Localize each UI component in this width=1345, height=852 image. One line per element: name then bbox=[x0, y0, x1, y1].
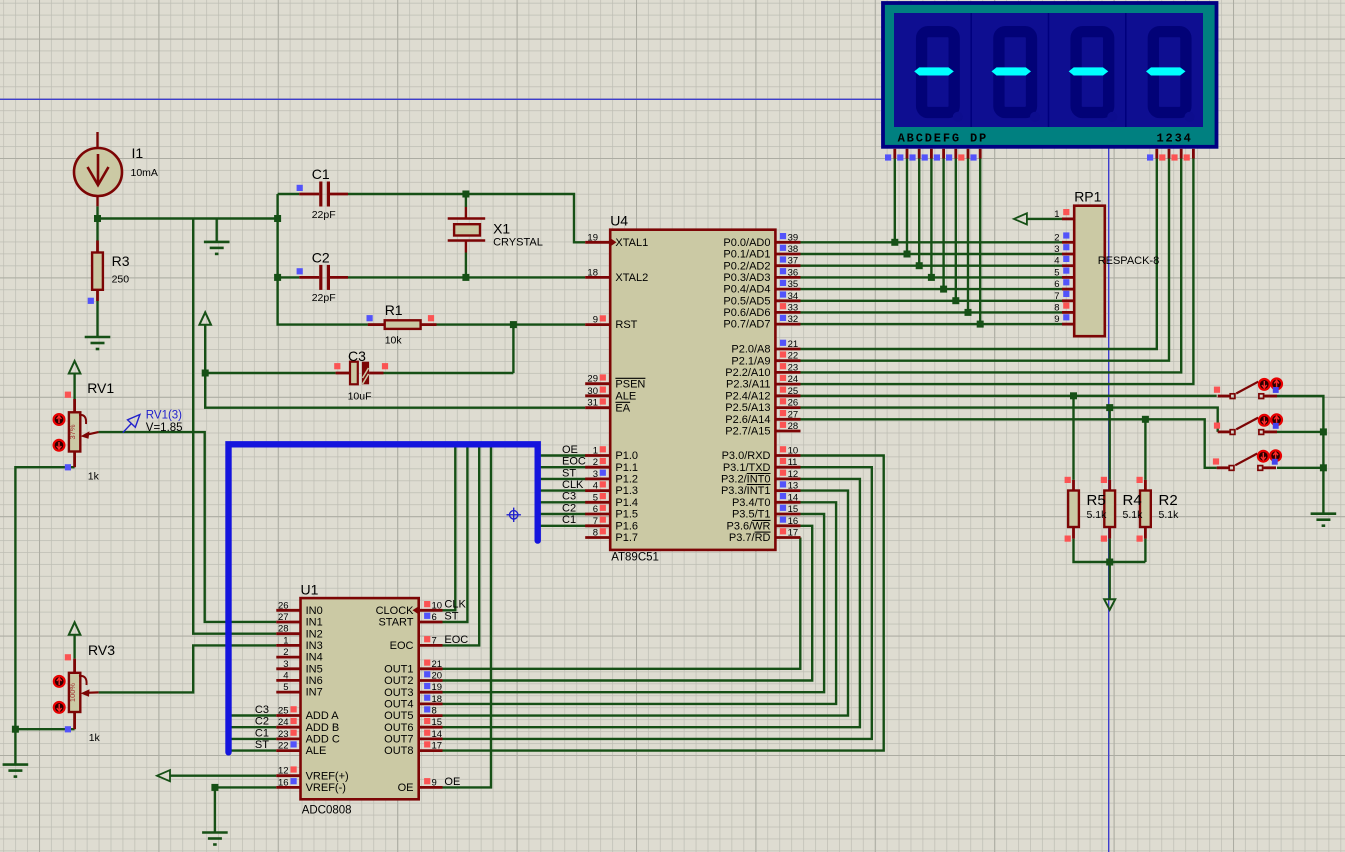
potentiometer RV1 down actuator bbox=[54, 440, 65, 451]
pin 28 stub U1 IN2 bbox=[276, 632, 300, 635]
pin 22 stub U4 P2.1/A9 bbox=[775, 359, 800, 362]
svg-text:31: 31 bbox=[587, 398, 598, 409]
svg-text:5.1k: 5.1k bbox=[1159, 509, 1180, 521]
pin 8 stub U1 OUT5 bbox=[419, 714, 443, 717]
origin marker crosshair bbox=[507, 508, 521, 522]
potentiometer RV3 top stub bbox=[73, 659, 76, 673]
node R2 tap junction bbox=[1142, 416, 1149, 423]
svg-text:26: 26 bbox=[278, 600, 289, 611]
pin 12 stub U4 P3.2/INT0 bbox=[775, 477, 800, 480]
svg-text:ALE: ALE bbox=[306, 745, 327, 757]
pin 1 marker U4 bbox=[600, 446, 606, 452]
wire X1 bottom to C2 net bbox=[465, 253, 467, 278]
svg-text:17: 17 bbox=[788, 528, 799, 539]
resistor R1 left stub bbox=[368, 323, 385, 326]
svg-text:IN0: IN0 bbox=[306, 605, 323, 617]
pin 5 stub U4 P1.4 bbox=[585, 501, 610, 504]
wire RV1 top to VCC terminal bbox=[73, 373, 75, 399]
pin 39 stub U4 P0.0/AD0 bbox=[775, 241, 800, 244]
svg-text:ALE: ALE bbox=[615, 390, 636, 402]
switch SW3 up actuator bbox=[1270, 450, 1281, 461]
pin 1 stub RP1 bbox=[1062, 217, 1074, 220]
node RV3/ground rail junction bbox=[12, 726, 19, 733]
capacitor C2 left stub bbox=[299, 276, 319, 279]
svg-text:V=1.85: V=1.85 bbox=[146, 422, 183, 434]
current source I1 bbox=[74, 132, 122, 206]
pin 22 marker U4 bbox=[780, 351, 786, 357]
wire RV1 bottom to ground rail bbox=[15, 467, 74, 764]
marker R4 top pin bbox=[1101, 477, 1107, 483]
wire VCC terminal to EA pin31 bbox=[205, 325, 585, 408]
svg-text:P3.5/T1: P3.5/T1 bbox=[732, 509, 771, 521]
pin 17 marker U4 bbox=[780, 528, 786, 534]
svg-text:VREF(-): VREF(-) bbox=[306, 782, 346, 794]
pin 19 stub U1 OUT3 bbox=[419, 691, 443, 694]
capacitor C1 plates bbox=[321, 182, 329, 207]
wire display digit 2 to 8051 P2.1 pin22 bbox=[801, 158, 1170, 361]
node display segment G junction bbox=[965, 309, 972, 316]
wire R4 bottom to output terminal bbox=[1108, 539, 1110, 600]
resistor R5 top stub bbox=[1072, 480, 1075, 491]
svg-text:7: 7 bbox=[432, 635, 437, 646]
node collector R4 junction bbox=[1106, 559, 1113, 566]
node display segment C junction bbox=[916, 262, 923, 269]
wire bus tap to ADC CLK pin bbox=[443, 447, 456, 611]
pin 36 stub U4 P0.3/AD3 bbox=[775, 276, 800, 279]
svg-text:6: 6 bbox=[432, 612, 437, 623]
resistor R5 body bbox=[1068, 491, 1079, 528]
wire VREF- to ground bbox=[215, 786, 276, 788]
marker display digit 1 bbox=[1147, 154, 1153, 160]
marker display digit 4 bbox=[1184, 154, 1190, 160]
pin 9 marker RP1 bbox=[1063, 314, 1069, 320]
svg-text:C3: C3 bbox=[348, 348, 366, 364]
pin 7 marker RP1 bbox=[1063, 291, 1069, 297]
pin 6 marker U4 bbox=[600, 505, 606, 511]
svg-text:OE: OE bbox=[398, 782, 414, 794]
pin 34 marker U4 bbox=[780, 291, 786, 297]
node C2/X1 bottom bbox=[462, 274, 469, 281]
ground bottom left rail bbox=[3, 765, 29, 777]
marker C2 left pin bbox=[297, 268, 303, 274]
potentiometer RV1 body bbox=[69, 412, 80, 451]
potentiometer RV1 up actuator bbox=[54, 414, 65, 425]
pin 28 stub U4 P2.7/A15 bbox=[775, 430, 800, 433]
sheet border top edge bbox=[0, 98, 1109, 100]
pin 20 marker U1 bbox=[424, 671, 430, 677]
wire 8051 P0.2 pin37 to RP1 pin4 bbox=[801, 265, 1063, 267]
wire bus to 8051 P1.1 pin2 bbox=[541, 466, 586, 468]
wire C3 left to VCC rail bbox=[205, 372, 335, 374]
pin 35 marker U4 bbox=[780, 280, 786, 286]
svg-text:OUT4: OUT4 bbox=[384, 699, 413, 711]
wire switch 1 to ground rail bbox=[1277, 396, 1323, 514]
wire bus to ADC ALE bbox=[231, 749, 276, 751]
svg-text:8: 8 bbox=[593, 528, 598, 539]
switch SW2 right contact bbox=[1259, 430, 1264, 435]
svg-text:18: 18 bbox=[587, 267, 598, 278]
svg-text:RV1: RV1 bbox=[87, 380, 114, 396]
pin 38 marker U4 bbox=[780, 245, 786, 251]
marker RV1 bottom pin bbox=[65, 464, 71, 470]
resistor R5 bottom stub bbox=[1072, 527, 1075, 539]
ground under ADC VREF- bbox=[202, 833, 228, 845]
pin 27 marker U4 bbox=[780, 410, 786, 416]
svg-text:18: 18 bbox=[432, 694, 443, 705]
wire ADC OUT7 to 8051 P3.1 pin11 bbox=[443, 467, 872, 739]
pin 31 marker U4 bbox=[600, 398, 606, 404]
svg-text:19: 19 bbox=[587, 232, 598, 243]
wire 8051 P0.6 pin33 to RP1 pin8 bbox=[801, 311, 1063, 313]
pin 14 marker U1 bbox=[424, 730, 430, 736]
pin 22 stub U1 ALE bbox=[276, 749, 300, 752]
node VREF- ground junction bbox=[211, 784, 218, 791]
potentiometer RV1 wiper arrow bbox=[79, 415, 99, 439]
svg-text:EOC: EOC bbox=[562, 456, 586, 468]
capacitor C2 right stub bbox=[330, 276, 348, 279]
svg-text:P3.4/T0: P3.4/T0 bbox=[732, 497, 771, 509]
svg-text:IN4: IN4 bbox=[306, 652, 323, 664]
svg-text:X1: X1 bbox=[493, 221, 510, 237]
pin display segment E bbox=[942, 149, 945, 159]
wire bus to 8051 P1.5 pin6 bbox=[541, 513, 586, 515]
svg-text:CLOCK: CLOCK bbox=[376, 605, 415, 617]
wire R5 bottom to collector bbox=[1074, 539, 1146, 562]
pin 2 stub RP1 bbox=[1062, 241, 1074, 244]
svg-text:34: 34 bbox=[788, 291, 799, 302]
svg-text:100%: 100% bbox=[68, 683, 77, 703]
svg-text:9: 9 bbox=[1054, 314, 1059, 325]
svg-text:5: 5 bbox=[1054, 267, 1059, 278]
wire display digit 4 to 8051 P2.3 pin24 bbox=[801, 158, 1194, 385]
switch SW3 right stub bbox=[1263, 466, 1276, 469]
pin 2 marker RP1 bbox=[1063, 232, 1069, 238]
switch SW1 right stub bbox=[1264, 395, 1277, 398]
pin 11 marker U4 bbox=[780, 458, 786, 464]
svg-text:25: 25 bbox=[788, 386, 799, 397]
svg-text:CLK: CLK bbox=[444, 599, 466, 611]
svg-text:21: 21 bbox=[788, 339, 799, 350]
wire bus tap to ADC ST pin bbox=[443, 447, 468, 622]
svg-text:27: 27 bbox=[788, 409, 799, 420]
ground switch rail bbox=[1311, 514, 1337, 526]
svg-text:XTAL1: XTAL1 bbox=[615, 237, 648, 249]
wire ground stem near C1 bbox=[215, 219, 217, 242]
display digit divider 1 bbox=[970, 13, 972, 127]
capacitor C2 plates bbox=[321, 265, 329, 290]
marker RV1 top pin bbox=[65, 392, 71, 398]
wire C2 right to XTAL2 pin18 bbox=[348, 276, 585, 278]
switch SW3 right contact bbox=[1258, 466, 1263, 471]
pin 20 stub U1 OUT2 bbox=[419, 679, 443, 682]
svg-text:PSEN: PSEN bbox=[615, 378, 645, 390]
svg-text:C1: C1 bbox=[255, 727, 269, 739]
pin 18 stub U1 OUT4 bbox=[419, 703, 443, 706]
pin 27 stub U1 IN1 bbox=[276, 621, 300, 624]
pin display digit 4 bbox=[1192, 149, 1195, 159]
wire display segment DP to P0.7 net bbox=[979, 158, 981, 325]
svg-text:9: 9 bbox=[593, 315, 598, 326]
pin 7 stub U1 EOC bbox=[419, 644, 443, 647]
display digit 1 segments bbox=[922, 32, 963, 122]
pin 9 stub U1 OE bbox=[419, 786, 443, 789]
svg-text:IN1: IN1 bbox=[306, 617, 323, 629]
node display segment E junction bbox=[940, 286, 947, 293]
pin 23 marker U1 bbox=[291, 730, 297, 736]
pin 24 stub U4 P2.3/A11 bbox=[775, 383, 800, 386]
svg-text:RESPACK-8: RESPACK-8 bbox=[1098, 255, 1160, 267]
marker switch SW2 left pin bbox=[1214, 423, 1220, 429]
svg-text:EOC: EOC bbox=[390, 640, 414, 652]
pin 10 marker U1 bbox=[424, 601, 430, 607]
potentiometer RV1 bottom stub bbox=[73, 452, 76, 468]
svg-text:RV1(3): RV1(3) bbox=[146, 410, 182, 422]
svg-text:17: 17 bbox=[432, 741, 443, 752]
svg-text:2: 2 bbox=[593, 457, 598, 468]
pin 15 marker U1 bbox=[424, 718, 430, 724]
wire C3 vertical to RST net bbox=[512, 325, 514, 373]
pin 29 marker U4 bbox=[600, 374, 606, 380]
wire bus to 8051 P1.3 pin4 bbox=[541, 489, 586, 491]
svg-text:IN3: IN3 bbox=[306, 640, 323, 652]
wire switch 2 to ground rail bbox=[1277, 431, 1323, 433]
node ground rail sw3 bbox=[1320, 464, 1327, 471]
svg-text:39: 39 bbox=[788, 232, 799, 243]
pin 9 stub U4 RST bbox=[585, 323, 610, 326]
wire RV3 bottom to ground rail bbox=[15, 728, 74, 730]
node VCC/C3 bbox=[202, 370, 209, 377]
marker display segment A bbox=[885, 154, 891, 160]
svg-text:10uF: 10uF bbox=[348, 391, 372, 403]
pin 17 stub U4 P3.7/RD bbox=[775, 536, 800, 539]
marker R5 bottom pin bbox=[1065, 536, 1071, 542]
svg-text:6: 6 bbox=[593, 504, 598, 515]
pin 19 stub U4 XTAL1 bbox=[585, 241, 610, 244]
pin 7 stub U4 P1.6 bbox=[585, 524, 610, 527]
pin 3 stub U1 IN5 bbox=[276, 667, 300, 670]
display digit 4 segments bbox=[1153, 32, 1194, 122]
svg-text:C2: C2 bbox=[255, 716, 269, 728]
marker R2 bottom pin bbox=[1137, 536, 1143, 542]
capacitor C3 left stub bbox=[336, 372, 350, 375]
wire 8051 P2.5 pin26 to switch 2 bbox=[801, 408, 1218, 432]
pin 24 marker U4 bbox=[780, 375, 786, 381]
svg-text:16: 16 bbox=[788, 516, 799, 527]
node R5 tap junction bbox=[1070, 392, 1077, 399]
svg-text:R1: R1 bbox=[385, 302, 403, 318]
marker display digit 2 bbox=[1159, 154, 1165, 160]
pin 24 marker U1 bbox=[291, 718, 297, 724]
pin 21 marker U4 bbox=[780, 340, 786, 346]
pin 35 stub U4 P0.4/AD4 bbox=[775, 288, 800, 291]
wire display segment E to P0.4 net bbox=[942, 158, 944, 290]
svg-text:7: 7 bbox=[593, 516, 598, 527]
pin 29 stub U4 PSEN bbox=[585, 382, 610, 385]
pin 4 stub RP1 bbox=[1062, 264, 1074, 267]
svg-text:P0.4/AD4: P0.4/AD4 bbox=[723, 284, 770, 296]
svg-text:P0.0/AD0: P0.0/AD0 bbox=[723, 237, 770, 249]
potentiometer RV3 body bbox=[69, 673, 80, 712]
svg-text:OE: OE bbox=[562, 444, 578, 456]
svg-text:ADC0808: ADC0808 bbox=[302, 805, 352, 817]
wire C3 right bbox=[384, 372, 514, 374]
svg-text:IN5: IN5 bbox=[306, 663, 323, 675]
bus ADC control/address bbox=[229, 444, 538, 752]
display digit 3 lit G segment bbox=[1069, 67, 1109, 75]
wire ADC OUT1 to 8051 P3.7 pin17 bbox=[443, 538, 801, 669]
pin 2 marker U4 bbox=[600, 458, 606, 464]
switch SW2 left stub bbox=[1218, 430, 1231, 433]
pin 15 marker U4 bbox=[780, 505, 786, 511]
svg-text:37%: 37% bbox=[68, 424, 77, 439]
pin 10 stub U1 CLOCK bbox=[419, 609, 443, 612]
svg-text:37: 37 bbox=[788, 256, 799, 267]
wire R5 top tap bbox=[1072, 396, 1074, 480]
pin 3 marker U4 bbox=[600, 470, 606, 476]
svg-text:22: 22 bbox=[278, 741, 289, 752]
pin 14 marker U4 bbox=[780, 493, 786, 499]
display digit 1 lit G segment bbox=[914, 67, 954, 75]
pin 22 marker U1 bbox=[291, 741, 297, 747]
wire 8051 P0.0 pin39 to RP1 pin2 bbox=[801, 241, 1063, 243]
resistor R2 bottom stub bbox=[1144, 527, 1147, 539]
pin 12 marker U4 bbox=[780, 470, 786, 476]
svg-text:24: 24 bbox=[278, 717, 289, 728]
pin 18 stub U4 XTAL2 bbox=[585, 276, 610, 279]
svg-text:OUT8: OUT8 bbox=[384, 745, 413, 757]
svg-text:ADD A: ADD A bbox=[306, 710, 340, 722]
pin 16 stub U1 VREF(-) bbox=[276, 786, 300, 789]
svg-text:C2: C2 bbox=[562, 502, 576, 514]
marker R1 left pin bbox=[367, 315, 373, 321]
switch SW3 lever bbox=[1235, 454, 1257, 466]
node RST/R1/C3 bbox=[510, 321, 517, 328]
svg-text:XTAL2: XTAL2 bbox=[615, 272, 648, 284]
potentiometer RV3 down actuator bbox=[54, 702, 65, 713]
potentiometer RV3 up actuator bbox=[54, 676, 65, 687]
wire display segment G to P0.6 net bbox=[967, 158, 969, 313]
wire 8051 P0.5 pin34 to RP1 pin7 bbox=[801, 300, 1063, 302]
pin 10 marker U4 bbox=[780, 446, 786, 452]
svg-text:P2.6/A14: P2.6/A14 bbox=[725, 414, 770, 426]
pin 36 marker U4 bbox=[780, 268, 786, 274]
svg-text:3: 3 bbox=[283, 659, 288, 670]
svg-text:1: 1 bbox=[593, 446, 598, 457]
marker switch SW3 left pin bbox=[1213, 458, 1219, 464]
svg-text:5: 5 bbox=[283, 682, 288, 693]
pin 39 marker U4 bbox=[780, 233, 786, 239]
svg-text:13: 13 bbox=[788, 481, 799, 492]
wire bus to 8051 P1.6 pin7 bbox=[541, 525, 586, 527]
pin marker XTAL1 arrow bbox=[611, 239, 617, 247]
svg-text:16: 16 bbox=[278, 777, 289, 788]
node I1/R3 junction bbox=[94, 215, 101, 222]
svg-text:R3: R3 bbox=[112, 253, 130, 269]
marker C1 left pin bbox=[297, 185, 303, 191]
marker display segment F bbox=[946, 154, 952, 160]
capacitor C3 right stub bbox=[369, 372, 383, 375]
pin 14 stub U4 P3.4/T0 bbox=[775, 501, 800, 504]
svg-text:P0.2/AD2: P0.2/AD2 bbox=[723, 260, 770, 272]
pin 13 stub U4 P3.3/INT1 bbox=[775, 489, 800, 492]
pin 15 stub U1 OUT6 bbox=[419, 726, 443, 729]
op-amp U4 body (AT89C51 IC) bbox=[610, 230, 775, 550]
pin name INT0 underline bbox=[747, 484, 771, 486]
svg-text:4: 4 bbox=[283, 670, 288, 681]
pin 25 marker U1 bbox=[291, 706, 297, 712]
svg-text:IN2: IN2 bbox=[306, 628, 323, 640]
wire 8051 P0.4 pin35 to RP1 pin6 bbox=[801, 288, 1063, 290]
pin 19 marker U1 bbox=[424, 683, 430, 689]
svg-text:C1: C1 bbox=[562, 514, 576, 526]
pin 9 stub RP1 bbox=[1062, 323, 1074, 326]
marker R4 bottom pin bbox=[1101, 536, 1107, 542]
pin 7 stub RP1 bbox=[1062, 299, 1074, 302]
svg-text:R5: R5 bbox=[1087, 492, 1106, 509]
switch SW3 actuator blue square bbox=[1272, 459, 1278, 465]
pin 4 marker U4 bbox=[600, 481, 606, 487]
node C1/X1 top bbox=[462, 191, 469, 198]
svg-text:P1.2: P1.2 bbox=[615, 474, 638, 486]
switch SW3 left stub bbox=[1217, 466, 1230, 469]
wire R1 right to RST pin9 bbox=[437, 323, 586, 325]
svg-text:25: 25 bbox=[278, 706, 289, 717]
svg-text:28: 28 bbox=[788, 421, 799, 432]
capacitor C1 right stub bbox=[330, 193, 348, 196]
marker display segment D bbox=[922, 154, 928, 160]
svg-text:RV3: RV3 bbox=[88, 642, 115, 658]
pin 6 stub U1 START bbox=[419, 621, 443, 624]
svg-text:1k: 1k bbox=[89, 732, 101, 744]
pin 27 stub U4 P2.6/A14 bbox=[775, 418, 800, 421]
svg-text:22: 22 bbox=[788, 351, 799, 362]
wire display segment B to P0.1 net bbox=[906, 158, 908, 255]
svg-text:29: 29 bbox=[587, 374, 598, 385]
display digit divider 3 bbox=[1125, 13, 1127, 127]
node ground rail sw2 bbox=[1320, 428, 1327, 435]
svg-text:P2.4/A12: P2.4/A12 bbox=[725, 390, 770, 402]
potentiometer RV3 wiper arrow bbox=[79, 676, 99, 697]
pin 7 marker U4 bbox=[600, 517, 606, 523]
pin 37 marker U4 bbox=[780, 256, 786, 262]
pin 25 stub U1 ADD A bbox=[276, 714, 300, 717]
wire R3 bottom to ground bbox=[96, 301, 98, 337]
svg-text:U4: U4 bbox=[610, 213, 628, 229]
wire X1 top stub to C1 net bbox=[465, 194, 467, 207]
svg-text:P2.7/A15: P2.7/A15 bbox=[725, 426, 770, 438]
marker display segment G bbox=[958, 154, 964, 160]
pin 16 stub U4 P3.6/WR bbox=[775, 524, 800, 527]
ground under R3 bbox=[85, 337, 111, 349]
svg-text:OUT7: OUT7 bbox=[384, 734, 413, 746]
pin 6 stub RP1 bbox=[1062, 288, 1074, 291]
ground near C1 bbox=[204, 242, 230, 254]
wire C2 left bbox=[278, 276, 300, 278]
switch SW1 actuator blue square bbox=[1273, 387, 1279, 393]
svg-text:ADD B: ADD B bbox=[306, 722, 340, 734]
pin 2 stub U1 IN4 bbox=[276, 656, 300, 659]
pin 3 stub RP1 bbox=[1062, 253, 1074, 256]
pin 32 marker U4 bbox=[780, 315, 786, 321]
wire 8051 P0.3 pin36 to RP1 pin5 bbox=[801, 276, 1063, 278]
svg-text:8: 8 bbox=[1054, 302, 1059, 313]
pin 4 stub U4 P1.3 bbox=[585, 489, 610, 492]
pin display digit 3 bbox=[1180, 149, 1183, 159]
svg-text:12: 12 bbox=[278, 766, 289, 777]
pin 33 marker U4 bbox=[780, 303, 786, 309]
svg-text:P1.1: P1.1 bbox=[615, 462, 638, 474]
marker display segment B bbox=[897, 154, 903, 160]
